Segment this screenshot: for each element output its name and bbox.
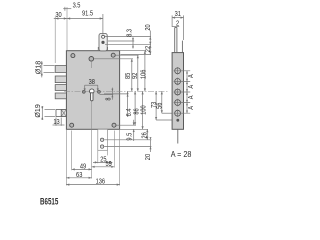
deadbolt 1 (Ø18) (55, 66, 66, 73)
dim 49 (72, 163, 92, 171)
svg-text:92: 92 (131, 72, 139, 79)
ext lines from latch circles to right (105, 36, 151, 38)
dim Ø18 (34, 61, 54, 78)
dim 38 bracket (84, 78, 99, 91)
svg-text:20: 20 (145, 24, 153, 31)
svg-text:59: 59 (105, 160, 112, 168)
dim 136 (66, 178, 119, 186)
strip hole 2 (174, 78, 191, 86)
strip small hole (176, 119, 179, 122)
screw top-right (111, 53, 115, 57)
strip hole 4 (174, 99, 191, 107)
ext bottom screw (116, 124, 136, 126)
dim 8 (keyhole) (100, 88, 114, 101)
horizontal centerline (keyhole axis) (64, 90, 168, 92)
ext screw bl (71, 131, 73, 171)
svg-text:22: 22 (144, 46, 152, 53)
svg-text:63: 63 (76, 171, 83, 179)
svg-text:9.5: 9.5 (126, 132, 134, 140)
svg-text:106: 106 (140, 69, 148, 79)
ext keyhole CL (91, 130, 93, 179)
dim Ø19 (34, 104, 55, 120)
screw stub centerline (91, 61, 93, 68)
svg-text:8: 8 (105, 97, 113, 101)
svg-text:31: 31 (175, 10, 182, 18)
dim 9.5 (126, 120, 135, 141)
svg-text:30: 30 (55, 12, 62, 20)
dim 6.4 (104, 91, 133, 117)
strip hole 3 (174, 88, 191, 96)
svg-text:Ø18: Ø18 (34, 61, 42, 74)
svg-text:Ø19: Ø19 (34, 104, 42, 117)
ext lines from slot circles (104, 139, 151, 141)
fixing dot right (97, 90, 100, 93)
svg-text:26: 26 (141, 132, 149, 139)
svg-text:A: A (187, 95, 195, 99)
dim 92 (131, 55, 139, 91)
top dims: line 30 / 91.5 (54, 10, 103, 20)
ext top screws middle (94, 58, 133, 60)
ext body top (120, 50, 146, 52)
lock body (66, 51, 119, 130)
svg-text:A = 28: A = 28 (171, 149, 192, 159)
ext top screws outer (116, 54, 139, 56)
svg-text:A: A (187, 74, 195, 78)
extension line body left (66, 7, 68, 51)
dim 8.3 (126, 29, 134, 49)
dim 59 (92, 160, 115, 168)
strip lower line (177, 129, 179, 143)
ext slot sides (97, 151, 99, 164)
dim 3.5 (63, 2, 81, 11)
strip hole 1 (174, 67, 191, 75)
vertical centerline below keyhole (91, 95, 93, 129)
bottom slot piece (98, 129, 108, 150)
ext hole5 to 56 (162, 112, 172, 114)
ext screw br (113, 131, 115, 168)
svg-text:49: 49 (80, 163, 87, 171)
svg-text:6.4: 6.4 (125, 108, 133, 116)
svg-text:136: 136 (96, 178, 106, 186)
latch bolt (Ø19) (56, 110, 66, 117)
screw top-middle (89, 57, 94, 62)
dim 100 (140, 91, 148, 129)
svg-text:2: 2 (176, 20, 180, 28)
ext body left bottom (65, 130, 67, 186)
fixing dot left (82, 90, 85, 93)
latch centerline (102, 14, 104, 35)
A dim column (186, 71, 195, 113)
strip hole 5 (174, 109, 191, 117)
svg-text:3.5: 3.5 (73, 2, 81, 10)
text clearance patches (99, 155, 110, 161)
deadbolt 3 (55, 85, 66, 91)
deadbolt 4 (55, 93, 66, 99)
svg-text:A: A (187, 105, 195, 109)
dim 26 (141, 129, 149, 140)
dim 106 (140, 51, 148, 92)
screw bottom-right (112, 123, 116, 127)
svg-text:20: 20 (144, 154, 152, 161)
dim 25 (93, 156, 112, 164)
dim 85 (125, 59, 133, 92)
svg-text:8.3: 8.3 (126, 29, 134, 37)
dim 2 (173, 20, 180, 28)
dim 73 (150, 91, 158, 120)
dim 63 (66, 171, 91, 179)
faceplate bent profile top (175, 28, 183, 53)
dim 20 (bottom) (144, 137, 152, 160)
ext small hole to 73 (156, 119, 176, 121)
svg-text:B6515: B6515 (40, 196, 59, 206)
dim 20 (top) (144, 24, 152, 55)
svg-text:91.5: 91.5 (82, 10, 93, 18)
ext body right bottom (119, 130, 121, 186)
svg-text:A: A (187, 84, 195, 88)
svg-text:38: 38 (89, 78, 96, 86)
screw top-left (71, 54, 75, 58)
ext body bottom right (120, 128, 148, 130)
faceplate side view strip (172, 53, 183, 130)
svg-text:13: 13 (53, 118, 60, 126)
deadbolt 2 (55, 76, 66, 83)
keyhole (90, 89, 95, 101)
svg-text:100: 100 (140, 105, 148, 115)
svg-text:56: 56 (156, 102, 164, 109)
extension line bolt face (54, 17, 56, 64)
dim 56 (156, 91, 164, 113)
latch width ticks (97, 47, 99, 51)
dim 31 (172, 10, 183, 40)
dim 86 (133, 91, 141, 125)
screw bottom-left (70, 123, 74, 127)
dim 13 (53, 118, 65, 127)
top latch piece (99, 34, 107, 51)
